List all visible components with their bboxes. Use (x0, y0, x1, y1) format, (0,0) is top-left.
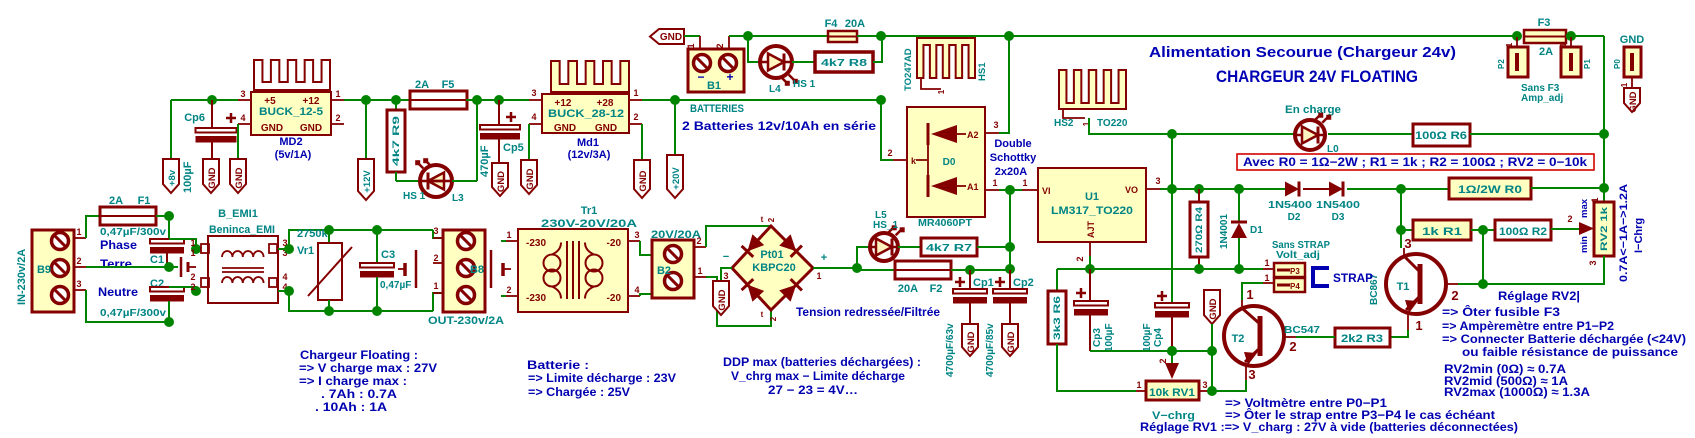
svg-text:100µF: 100µF (182, 161, 194, 193)
svg-text:470µF: 470µF (479, 145, 491, 177)
svg-text:2: 2 (335, 113, 340, 123)
svg-text:+: + (821, 252, 827, 264)
Md1 pin 4 (529, 123, 542, 125)
svg-text:2: 2 (633, 112, 638, 122)
wire B1 pin2 to F4 rail (729, 35, 828, 37)
node Vr1 top (324, 225, 334, 235)
svg-text:T1: T1 (1397, 281, 1410, 293)
diode D3 1N5400 (1329, 182, 1343, 197)
svg-text:Beninca_EMI: Beninca_EMI (209, 224, 275, 236)
node U1 out (1167, 184, 1177, 194)
ground GND at B1 (650, 29, 684, 44)
node right rail R0 (1599, 183, 1609, 193)
svg-text:VI: VI (1042, 186, 1051, 196)
connector B8 OUT-230v/2A (433, 237, 443, 239)
svg-text:GND: GND (1006, 331, 1017, 352)
svg-text:GND: GND (595, 123, 617, 134)
node right rail R6 (1599, 129, 1609, 139)
svg-text:1N5400: 1N5400 (1316, 200, 1361, 211)
svg-text:0,47µF/300v: 0,47µF/300v (100, 227, 167, 238)
svg-text:1N5400: 1N5400 (1268, 200, 1313, 211)
double schottky D0 MR4060PT body (907, 107, 985, 217)
B2 pin 1 (694, 276, 706, 278)
svg-text:I−Chrg: I−Chrg (1633, 218, 1645, 253)
wire right rail (1603, 36, 1605, 188)
battery symbol right of B8 (490, 250, 493, 288)
capacitor Cp1 (969, 270, 971, 289)
svg-text:MR4060PT: MR4060PT (918, 218, 972, 229)
svg-text:100µF: 100µF (1104, 323, 1115, 352)
svg-text:D1: D1 (1250, 225, 1263, 236)
node D0/U1/bridge junction (1005, 185, 1015, 195)
svg-text:2: 2 (190, 272, 195, 282)
svg-text:GND: GND (1628, 91, 1639, 112)
svg-text:Réglage RV1 :=> V_charg : 27V: Réglage RV1 :=> V_charg : 27V à vide (ba… (1140, 420, 1518, 434)
wire +12V label (365, 100, 367, 159)
svg-text:t: t (761, 215, 764, 224)
node L5 branch (852, 263, 862, 273)
svg-text:Md1: Md1 (577, 137, 599, 149)
resistor R7 4k7 (921, 238, 977, 256)
node F3 right (1566, 31, 1576, 41)
svg-text:1: 1 (1246, 287, 1253, 302)
wire R2 to RV2 wiper (1551, 228, 1579, 230)
strap bracket (1313, 268, 1329, 286)
wire Md1 pin4 to GND (528, 124, 530, 160)
svg-text:2: 2 (506, 285, 511, 295)
svg-text:Cp4: Cp4 (1153, 328, 1164, 347)
transistor T2 BC547 (1224, 306, 1284, 366)
svg-text:1: 1 (1264, 258, 1269, 268)
svg-text:+20V: +20V (671, 167, 682, 190)
svg-text:GND: GND (1620, 34, 1645, 46)
T2 emitter pin (1245, 366, 1247, 380)
T2 collector pin (1241, 300, 1243, 309)
svg-text:C1: C1 (150, 254, 164, 266)
svg-text:3: 3 (1202, 380, 1207, 390)
wire bridge + to F2 (813, 268, 895, 270)
svg-text:B8: B8 (470, 264, 484, 276)
svg-text:t: t (761, 310, 764, 319)
node R7 return (1005, 242, 1015, 252)
svg-text:4: 4 (634, 285, 639, 295)
wire MD2 pin4 to GND (237, 124, 239, 159)
svg-text:1: 1 (1620, 82, 1629, 87)
svg-text:2A: 2A (109, 195, 123, 207)
diode D2 1N5400 (1285, 182, 1299, 197)
svg-text:GND: GND (300, 123, 322, 134)
power label +12V (358, 159, 374, 200)
power label +20V (667, 155, 683, 198)
svg-text:GND: GND (496, 171, 507, 192)
D0 pin 3 (A2) (985, 132, 999, 134)
node EMI in1 (191, 244, 201, 254)
svg-text:Neutre: Neutre (98, 285, 138, 299)
node battery rail to D0 (876, 95, 886, 105)
transistor T1 BC867 (1386, 254, 1446, 314)
resistor R8 4k7 (815, 52, 873, 72)
ground GND under Cp2 (1002, 324, 1018, 356)
svg-text:2: 2 (1451, 288, 1458, 303)
wire B9 pin1 up to F1 (86, 216, 100, 238)
ground GND pentagon above T2 (1204, 290, 1220, 324)
svg-text:Vr1: Vr1 (297, 245, 314, 257)
trimmer RV2 1k (1603, 188, 1605, 202)
wire Terre (86, 266, 178, 268)
earth capacitor at Terre (180, 257, 183, 277)
svg-text:=> V charge max : 27V: => V charge max : 27V (299, 361, 437, 375)
svg-text:Double: Double (994, 138, 1031, 150)
svg-text:Cp6: Cp6 (184, 112, 205, 124)
B9 pin 2 (74, 266, 86, 268)
wire L5 to R7 (898, 246, 921, 248)
wire +20V label (674, 100, 676, 155)
svg-text:=> Limite décharge : 23V: => Limite décharge : 23V (528, 371, 676, 385)
svg-text:LM317_TO220: LM317_TO220 (1051, 205, 1133, 217)
svg-text:Amp_adj: Amp_adj (1521, 93, 1563, 104)
fuse F2 20A (895, 261, 951, 279)
svg-text:GND: GND (966, 331, 977, 352)
wire F1 to phase column (156, 215, 169, 217)
svg-text:L4: L4 (769, 84, 781, 95)
bridge diode bottom-left (742, 279, 765, 302)
svg-text:Phase: Phase (100, 238, 137, 252)
wire neutre to EMI pin2 (196, 290, 200, 292)
wire B2 pin2 to bridge top (706, 226, 771, 247)
svg-text:GND: GND (207, 167, 218, 188)
capacitor Cp2 (1009, 270, 1011, 289)
bridge diode bottom-right (779, 279, 802, 302)
node L3 return (472, 95, 482, 105)
svg-text:4700µF/63v: 4700µF/63v (945, 323, 956, 377)
heatsink HS2 TO220 (1059, 70, 1126, 109)
ground GND under Cp1 (962, 324, 978, 356)
svg-text:P2: P2 (1497, 59, 1506, 69)
svg-text:2 Batteries 12v/10Ah en série: 2 Batteries 12v/10Ah en série (682, 119, 876, 133)
capacitor Cp4 (1155, 303, 1189, 308)
node R4 top (1194, 184, 1204, 194)
B9 pin 1 (74, 237, 86, 239)
node F3 left (1512, 31, 1522, 41)
svg-text:A2: A2 (967, 130, 979, 140)
svg-text:+12V: +12V (362, 170, 373, 193)
svg-text:2x20A: 2x20A (995, 166, 1027, 178)
svg-text:CHARGEUR 24V FLOATING: CHARGEUR 24V FLOATING (1216, 67, 1418, 86)
svg-text:1: 1 (1264, 273, 1269, 283)
ground GND Md1 pin4 (521, 160, 537, 194)
B1 pin 2 (728, 36, 730, 49)
T1 emitter pin (1407, 314, 1409, 330)
svg-text:Avec R0 = 1Ω−2W ; R1 = 1k ; R2: Avec R0 = 1Ω−2W ; R1 = 1k ; R2 = 100Ω ; … (1243, 155, 1587, 169)
svg-text:HS 1: HS 1 (403, 191, 426, 202)
wire rail corner (1571, 35, 1604, 37)
wire to LED L4 (748, 36, 762, 62)
svg-text:Alimentation Secourue (Chargeu: Alimentation Secourue (Chargeur 24v) (1149, 44, 1456, 61)
svg-text:1: 1 (76, 227, 81, 237)
svg-text:3: 3 (433, 226, 438, 236)
svg-text:3: 3 (1155, 176, 1160, 186)
svg-text:1: 1 (1022, 178, 1027, 188)
svg-text:HS1: HS1 (977, 62, 988, 81)
svg-text:BC547: BC547 (1284, 325, 1320, 336)
svg-text:TO220: TO220 (1097, 118, 1128, 129)
module Md1 BUCK_28-12 body (542, 94, 629, 133)
wire B2 pin1 to bridge bottom (706, 277, 771, 326)
svg-text:1: 1 (937, 89, 946, 94)
Tr1 pin 1 (501, 240, 506, 242)
node junction Cp6/MD2 (207, 95, 217, 105)
node R4 bottom (1194, 264, 1204, 274)
svg-text:3: 3 (531, 88, 536, 98)
svg-text:2: 2 (76, 256, 81, 266)
svg-text:2: 2 (433, 253, 438, 263)
D0 diode A1 (927, 175, 930, 197)
svg-text:=> Ampèremètre entre P1−P2: => Ampèremètre entre P1−P2 (1442, 319, 1614, 333)
wire L4 to R8 (792, 61, 815, 63)
resistor R1 1k (1401, 229, 1413, 231)
RV1 wiper arrow (1171, 351, 1173, 363)
connector B9 IN-230v/2A (32, 230, 74, 312)
node neutre column (164, 317, 174, 327)
svg-text:2: 2 (767, 217, 776, 222)
svg-text:Volt_adj: Volt_adj (1276, 250, 1320, 261)
wire R7 to node (977, 246, 1010, 248)
svg-text:DDP max (batteries déchargées): DDP max (batteries déchargées) : (723, 355, 921, 369)
node EMI out2 (284, 286, 294, 296)
node RV1 wiper (1167, 346, 1177, 356)
svg-text:B_EMI1: B_EMI1 (218, 208, 258, 220)
svg-text:BUCK_28-12: BUCK_28-12 (548, 108, 624, 120)
resistor R4 270R (1198, 189, 1200, 202)
svg-text:Cp1: Cp1 (973, 277, 994, 289)
svg-text:RV2 1k: RV2 1k (1599, 206, 1610, 251)
svg-text:C3: C3 (381, 249, 395, 261)
svg-text:HS 1: HS 1 (793, 79, 816, 90)
capacitor Cp5 (498, 100, 500, 125)
svg-text:BATTERIES: BATTERIES (690, 103, 744, 115)
node T1 collector branch (1396, 184, 1406, 194)
svg-text:4: 4 (240, 113, 245, 123)
svg-text:1: 1 (1136, 380, 1141, 390)
svg-text:4: 4 (282, 272, 287, 282)
wire GND to B1 pin1 (684, 35, 700, 37)
svg-text:4700µF/85v: 4700µF/85v (985, 323, 996, 377)
svg-text:2: 2 (887, 148, 892, 158)
T1 base pin (1446, 283, 1458, 285)
svg-text:1: 1 (335, 89, 340, 99)
svg-text:Pt01: Pt01 (760, 249, 783, 261)
wire neutre (86, 290, 169, 322)
wire RV2 bottom to T1 base line (1483, 256, 1604, 284)
svg-text:2A: 2A (415, 79, 429, 91)
battery symbol left of B8 (415, 250, 418, 288)
wire neutre column to C2 (168, 301, 170, 322)
wire Md1 pin2 to GND (641, 124, 643, 160)
wire D3 to R0 (1347, 188, 1449, 190)
svg-text:3: 3 (634, 230, 639, 240)
svg-text:F5: F5 (442, 79, 455, 91)
wire F2 to caps (951, 269, 1010, 271)
svg-text:GND: GND (1208, 298, 1219, 319)
MD2 pin 4 (238, 123, 251, 125)
node Cp5 (494, 95, 504, 105)
svg-text:. 10Ah : 1A: . 10Ah : 1A (315, 400, 387, 414)
svg-text:P1: P1 (1583, 59, 1592, 69)
svg-text:P0: P0 (1613, 59, 1622, 69)
svg-text:P4: P4 (1290, 282, 1300, 291)
svg-text:GND: GND (261, 123, 283, 134)
svg-text:Terre: Terre (100, 257, 132, 271)
svg-text:GND: GND (717, 289, 728, 310)
svg-text:MD2: MD2 (279, 136, 302, 148)
svg-text:1N4001: 1N4001 (1219, 214, 1230, 249)
D0 pin 1 (A1) (985, 189, 999, 191)
svg-text:(5v/1A): (5v/1A) (275, 149, 312, 161)
regulator U1 LM317_TO220 (1038, 168, 1146, 242)
ground label GND under P0 (1624, 88, 1640, 112)
svg-text:-230: -230 (526, 238, 546, 249)
resistor R2 100R (1483, 229, 1495, 231)
diode D1 1N4001 (1238, 189, 1240, 222)
node C3 bottom (372, 306, 382, 316)
svg-text:−: − (697, 70, 704, 84)
svg-text:2: 2 (1289, 339, 1296, 354)
resistor R9 4k7 (395, 100, 397, 110)
MD2 pin 3 (238, 99, 251, 101)
bridge diode top-right (779, 234, 802, 257)
svg-text:Schottky: Schottky (990, 152, 1037, 164)
svg-text:2: 2 (1158, 358, 1168, 363)
svg-text:B1: B1 (707, 80, 721, 92)
svg-text:1: 1 (633, 88, 638, 98)
wire EMI out1 to top rail (278, 230, 433, 249)
svg-text:F4: F4 (825, 18, 839, 30)
ground GND under Cp6 (203, 159, 219, 193)
node output riser (1167, 129, 1177, 139)
svg-text:1: 1 (992, 178, 997, 188)
svg-text:En charge: En charge (1285, 104, 1341, 116)
svg-text:3: 3 (240, 89, 245, 99)
svg-text:Tr1: Tr1 (581, 205, 598, 217)
bridge diode top-left (742, 234, 765, 257)
svg-text:4k7 R9: 4k7 R9 (391, 116, 402, 166)
svg-text:20A: 20A (845, 18, 865, 30)
svg-text:0,47µF: 0,47µF (380, 280, 411, 291)
svg-text:GND: GND (638, 170, 649, 191)
wire R0 to right rail (1531, 187, 1604, 189)
svg-text:STRAP: STRAP (1333, 271, 1373, 285)
D0 pin 2 (k) (893, 159, 907, 161)
D0 internal k bus (916, 134, 928, 186)
capacitor Cp3 (1089, 269, 1091, 301)
resistor R0 1R/2W (1449, 178, 1531, 199)
svg-text:3: 3 (723, 271, 728, 281)
resistor R3 2k2 (1335, 328, 1390, 347)
LED L3 (420, 165, 452, 197)
svg-text:+: + (726, 70, 733, 84)
svg-text:−: − (723, 251, 729, 263)
svg-text:-230: -230 (526, 293, 546, 304)
LED L4 (760, 46, 792, 78)
B2 pin 2 (694, 246, 706, 248)
wire phase column down (168, 216, 170, 239)
svg-text:-20: -20 (607, 238, 622, 249)
svg-text:100µF: 100µF (1142, 323, 1153, 352)
svg-text:2: 2 (190, 282, 195, 292)
svg-text:. 7Ah : 0.7A: . 7Ah : 0.7A (321, 387, 397, 401)
D0 diode A2 (927, 123, 930, 145)
wire L3 to rail (452, 180, 477, 182)
svg-text:=> Chargée : 25V: => Chargée : 25V (528, 385, 630, 399)
svg-text:Cp2: Cp2 (1013, 277, 1034, 289)
wire D0 out to U1 VI (999, 189, 1022, 191)
wire U1 out (1160, 188, 1172, 190)
node Cp1 (965, 265, 975, 275)
node gnd stub (1207, 346, 1217, 356)
wire D0 node down to main line (1009, 190, 1011, 269)
svg-text:2A: 2A (1539, 46, 1553, 58)
svg-text:1: 1 (190, 238, 195, 248)
svg-text:1Ω/2W R0: 1Ω/2W R0 (1458, 184, 1522, 196)
svg-text:D0: D0 (943, 157, 956, 168)
svg-text:Chargeur Floating :: Chargeur Floating : (300, 348, 418, 362)
node D1 top (1234, 184, 1244, 194)
svg-text:270Ω R4: 270Ω R4 (1194, 206, 1205, 253)
svg-text:B2: B2 (657, 265, 671, 277)
heatsink HS1 TO247AD (917, 38, 975, 78)
wire L5 branch (857, 247, 870, 268)
wire bottom rail to B8 pin1 (433, 293, 443, 311)
wire Tr1 pin4 to B2 (640, 294, 652, 296)
wire Tr1 pin3 to B2 (640, 241, 652, 255)
svg-text:2: 2 (696, 236, 701, 246)
svg-text:3k3 R6: 3k3 R6 (1052, 296, 1063, 340)
svg-text:27 − 23 = 4V…: 27 − 23 = 4V… (768, 383, 858, 397)
svg-text:4k7 R8: 4k7 R8 (821, 57, 867, 69)
wire F4 to top rail (857, 35, 1517, 37)
svg-text:2750k: 2750k (297, 228, 328, 240)
capacitor C3 (372, 225, 382, 235)
bridge rectifier Pt01 KBPC20 (732, 226, 813, 310)
B1 pin 1 (699, 36, 701, 49)
svg-text:4k7 R7: 4k7 R7 (926, 242, 972, 254)
svg-text:100Ω R2: 100Ω R2 (1499, 226, 1547, 238)
LED L5 (870, 233, 898, 261)
wire phase to EMI pin1 (169, 239, 200, 249)
svg-text:100Ω R6: 100Ω R6 (1415, 130, 1467, 142)
svg-text:3: 3 (1588, 260, 1598, 265)
svg-text:2k2 R3: 2k2 R3 (1341, 333, 1383, 345)
svg-text:TO247AD: TO247AD (903, 48, 914, 91)
svg-text:1: 1 (433, 281, 438, 291)
svg-text:HS2: HS2 (1054, 118, 1074, 129)
svg-text:Cp3: Cp3 (1092, 328, 1103, 347)
svg-text:B9: B9 (37, 264, 51, 276)
svg-text:IN-230v/2A: IN-230v/2A (16, 249, 28, 305)
svg-text:3: 3 (1404, 236, 1411, 251)
ground GND Md1 pin2 (634, 160, 650, 198)
svg-text:max: max (1579, 198, 1590, 218)
connector P4 (1263, 282, 1274, 284)
svg-text:AJT: AJT (1086, 220, 1096, 238)
svg-text:=> I charge max :: => I charge max : (299, 374, 407, 388)
svg-text:VO: VO (1125, 185, 1138, 195)
wire output riser (1171, 134, 1173, 303)
Tr1 pin 3 (628, 240, 640, 242)
wire R8 to rail (873, 36, 882, 62)
svg-text:Réglage RV2|: Réglage RV2| (1498, 289, 1580, 303)
heatsink above MD2 (254, 60, 330, 90)
